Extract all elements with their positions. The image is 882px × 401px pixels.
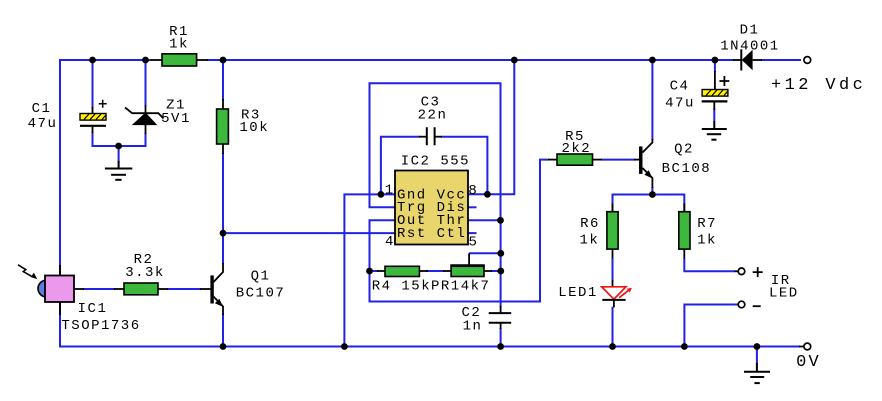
wire C4 branch from rail — [713, 60, 716, 122]
svg-text:LED1: LED1 — [558, 285, 598, 301]
capacitor C4 top plate — [702, 90, 728, 97]
wire top rail left segment (5V side) — [60, 59, 151, 61]
svg-text:Q1: Q1 — [251, 269, 271, 285]
IC1 TSOP1736 body — [45, 276, 74, 303]
junction dot Z1 top — [142, 57, 149, 64]
wire bottom-right ground stem — [756, 347, 758, 365]
junction dot Q2 riser top — [649, 57, 656, 64]
svg-text:TSOP1736: TSOP1736 — [61, 318, 140, 334]
resistor R7 lead top — [683, 204, 685, 213]
svg-text:3.3k: 3.3k — [125, 265, 165, 281]
wire R3 branch from rail — [222, 60, 224, 100]
capacitor C2 lead bottom — [500, 323, 502, 329]
transistor Q2 collector — [643, 139, 653, 153]
svg-text:2k2: 2k2 — [561, 141, 591, 157]
zener Z1 triangle — [133, 113, 156, 124]
diode D1 lead left — [733, 59, 741, 61]
svg-text:4: 4 — [385, 234, 395, 250]
wire D1 to +12 terminal — [761, 59, 801, 61]
svg-text:BC107: BC107 — [236, 286, 286, 302]
transistor Q2 emitter — [643, 168, 653, 188]
wire R5 to Q2 base — [601, 159, 635, 161]
transistor Q2 base lead — [634, 159, 639, 161]
wire Out node to R4 — [370, 270, 379, 272]
junction dot C1-Z1 ground — [115, 143, 122, 150]
resistor R3 lead bottom — [222, 144, 224, 154]
wire R4 to PR1 — [426, 270, 444, 272]
capacitor C1 lead top — [92, 107, 94, 114]
wire 555 Out down and around to R5 — [370, 160, 550, 302]
svg-text:R4 15k: R4 15k — [372, 278, 431, 294]
ground symbol under C1/Z1 — [105, 161, 132, 180]
svg-text:5V1: 5V1 — [161, 111, 191, 127]
preset PR1 lead left — [443, 270, 451, 272]
diode D1 triangle — [742, 50, 753, 71]
IC1 photon arrow — [18, 265, 37, 279]
svg-text:Q2: Q2 — [674, 142, 694, 158]
junction dot C2 rail — [497, 343, 504, 350]
svg-text:+12 Vdc: +12 Vdc — [771, 76, 866, 95]
resistor R6 lead top — [612, 204, 614, 213]
junction dot Gnd pin C3 — [378, 191, 385, 198]
junction dot minus rail — [681, 343, 688, 350]
resistor R1 lead right — [197, 59, 208, 61]
terminal 0V — [799, 343, 811, 350]
resistor R3 lead top — [222, 99, 224, 109]
resistor R2 lead right — [158, 288, 168, 290]
resistor R4 lead left — [377, 270, 385, 272]
junction dot Vcc pin C3 — [484, 191, 491, 198]
capacitor C3 plates — [427, 127, 435, 145]
resistor R7 lead bottom — [683, 249, 685, 259]
svg-text:BC108: BC108 — [662, 161, 712, 177]
wire Rst horizontal (Q1 collector to pin 4) — [223, 232, 395, 234]
svg-text:R7: R7 — [697, 216, 717, 232]
preset PR1 wiper bar — [450, 264, 485, 267]
zener Z1 lead bottom — [145, 125, 147, 134]
ground symbol under C4 — [702, 121, 727, 140]
transistor Q1 base lead — [200, 288, 211, 290]
svg-text:22n: 22n — [418, 108, 448, 124]
wire 555 Gnd pin to bottom rail — [344, 194, 395, 346]
resistor R1 — [162, 54, 197, 66]
svg-text:R6: R6 — [580, 216, 600, 232]
transistor Q1 emitter — [214, 297, 224, 316]
terminal +12 Vdc — [804, 57, 811, 64]
svg-text:PR14k7: PR14k7 — [431, 278, 490, 294]
IC1 pin bottom — [59, 302, 61, 316]
IC2 555 body — [395, 171, 468, 245]
wire Q2 emitter to node — [651, 187, 653, 195]
svg-text:IC1: IC1 — [78, 301, 108, 317]
wire Z1 branch — [145, 60, 147, 146]
junction dot R3 top — [220, 57, 227, 64]
diode D1 cathode bar — [740, 49, 742, 70]
preset PR1 — [451, 266, 484, 276]
wire Rst node to Q1 collector — [222, 233, 224, 264]
resistor R5 lead left — [548, 159, 557, 161]
capacitor C4 plus sign — [719, 76, 729, 86]
wire Q2 emitter node row — [613, 195, 685, 213]
wire LED1 to bottom rail — [612, 307, 614, 347]
svg-text:0V: 0V — [796, 353, 821, 372]
svg-text:47u: 47u — [665, 96, 695, 112]
capacitor C1 plus sign — [99, 100, 107, 108]
wire bottom rail — [59, 346, 800, 348]
capacitor C1 top plate — [80, 114, 106, 121]
resistor R4 lead right — [419, 270, 428, 272]
ground symbol bottom right — [744, 363, 770, 383]
IC1 pin right — [74, 288, 85, 290]
junction dot wiper — [497, 250, 504, 257]
junction dot Thr — [497, 217, 504, 224]
LED1 lead top — [612, 280, 614, 287]
wire IC1 out to R2 — [83, 288, 115, 290]
svg-text:Rst: Rst — [397, 226, 427, 242]
resistor R3 — [217, 109, 229, 144]
wire R6 to LED1 — [612, 258, 614, 281]
IC1 pin top — [59, 265, 61, 276]
svg-text:1k: 1k — [169, 37, 189, 53]
junction dot LED rail — [609, 343, 616, 350]
wire Vcc pin to top rail — [468, 60, 514, 194]
LED1 emission arrow — [619, 288, 632, 298]
wire Q2 collector riser from rail — [651, 60, 653, 140]
wire R7 to plus terminal — [684, 258, 735, 271]
capacitor C4 lead bottom — [713, 102, 715, 110]
svg-text:1n: 1n — [463, 318, 483, 334]
wire Thr vertical down to C2 — [500, 220, 502, 307]
svg-text:LED: LED — [769, 286, 799, 302]
LED1 triangle — [602, 287, 626, 299]
svg-text:1k: 1k — [579, 233, 599, 249]
svg-text:47u: 47u — [28, 116, 58, 132]
resistor R6 lead bottom — [612, 249, 614, 259]
wire C3 left lead loop to Gnd pin — [381, 137, 420, 195]
svg-text:5: 5 — [469, 235, 479, 251]
capacitor C4 bottom plate — [702, 100, 728, 102]
resistor R2 — [124, 283, 158, 295]
junction dot ground rail — [754, 343, 761, 350]
zener Z1 cathode bar with wings — [125, 108, 164, 119]
resistor R4 — [385, 266, 419, 276]
zener Z1 lead top — [145, 105, 147, 113]
svg-text:8: 8 — [468, 183, 478, 199]
resistor R2 lead left — [114, 288, 124, 290]
wire R2 to Q1 base — [167, 288, 201, 290]
diode D1 lead right — [753, 59, 762, 61]
svg-text:D1: D1 — [740, 23, 760, 39]
resistor R1 lead left — [151, 59, 163, 61]
wire Q1 emitter to bottom rail — [222, 314, 224, 347]
svg-text:1N4001: 1N4001 — [720, 39, 779, 55]
svg-text:1k: 1k — [697, 233, 717, 249]
wire top rail right segment (+12V side) — [207, 59, 734, 61]
capacitor C2 plates — [489, 313, 512, 323]
wire C1 branch — [92, 60, 94, 146]
junction dot C1 top — [89, 57, 96, 64]
svg-text:C4: C4 — [670, 79, 690, 95]
LED1 cathode bar — [602, 299, 625, 301]
resistor R5 — [557, 154, 593, 165]
resistor R5 lead right — [593, 159, 603, 161]
capacitor C1 bottom plate — [80, 125, 106, 127]
junction dot Q1 emitter rail — [220, 343, 227, 350]
transistor Q1 emitter arrow — [215, 299, 223, 307]
junction dot 555 gnd rail — [341, 343, 348, 350]
capacitor C2 lead top — [500, 306, 502, 313]
LED1 lead bottom — [613, 300, 615, 308]
wire Ctl stub — [468, 232, 477, 234]
junction dot PR1 right — [497, 268, 504, 275]
wire R3 bottom to Rst node — [222, 153, 224, 233]
wire Dis stub — [468, 206, 477, 208]
svg-text:1: 1 — [385, 182, 395, 198]
preset PR1 wiper stem — [468, 253, 470, 265]
preset PR1 lead right — [484, 270, 492, 272]
wire 555 Trg loop to Thr — [370, 83, 501, 220]
svg-text:Ctl: Ctl — [437, 226, 467, 242]
resistor R6 — [607, 212, 618, 249]
junction dot Vcc riser top — [511, 57, 518, 64]
terminal IR LED minus — [738, 301, 761, 308]
wire PR1 wiper to Thr vertical — [469, 252, 501, 254]
wire Thr stub — [468, 219, 501, 221]
junction dot C4/D1 top — [712, 57, 719, 64]
capacitor C3 lead right — [435, 136, 442, 138]
terminal IR LED plus — [735, 267, 763, 277]
transistor Q1 bar — [210, 275, 213, 303]
svg-text:C1: C1 — [32, 101, 52, 117]
capacitor C1 lead bottom — [92, 127, 94, 133]
transistor Q2 emitter arrow — [644, 170, 652, 178]
svg-text:10k: 10k — [239, 120, 269, 136]
resistor R7 — [679, 212, 690, 249]
IC1 lens — [38, 280, 45, 297]
junction dot Q2 emitter node — [649, 191, 656, 198]
transistor Q1 collector — [214, 263, 224, 282]
wire left rail vertical — [59, 59, 61, 348]
svg-text:IC2 555: IC2 555 — [401, 154, 470, 170]
capacitor C3 lead left — [419, 136, 427, 138]
wire PR1 to Thr vertical — [491, 270, 501, 272]
junction dot Out R4 — [366, 268, 373, 275]
wire C2 bottom to rail — [500, 328, 502, 347]
junction dot Rst node — [220, 230, 227, 237]
wire C3 right lead loop to Vcc pin — [441, 137, 487, 195]
wire minus terminal to bottom rail — [684, 305, 738, 347]
transistor Q2 bar — [639, 146, 643, 174]
wire C1 ground stem — [118, 146, 120, 162]
capacitor C4 lead top — [714, 71, 716, 90]
wire C1-Z1 bottom connector — [92, 145, 147, 147]
